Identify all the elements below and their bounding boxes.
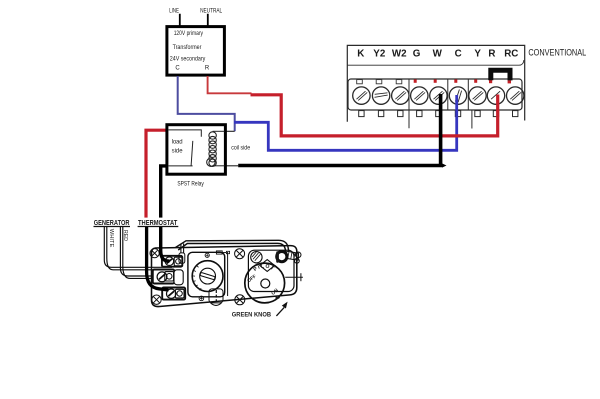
svg-text:THERMOSTAT: THERMOSTAT <box>138 220 178 227</box>
svg-text:GREEN KNOB: GREEN KNOB <box>232 312 271 319</box>
svg-text:LINE: LINE <box>169 8 179 15</box>
svg-text:W2: W2 <box>392 48 407 59</box>
svg-text:load: load <box>172 140 183 146</box>
svg-text:Y: Y <box>474 48 481 59</box>
svg-text:R: R <box>205 65 210 71</box>
svg-text:Y2: Y2 <box>373 48 386 59</box>
svg-text:CONVENTIONAL: CONVENTIONAL <box>528 47 586 58</box>
svg-text:WHITE: WHITE <box>108 229 114 248</box>
svg-text:side: side <box>172 148 184 154</box>
svg-text:RED: RED <box>122 230 128 241</box>
svg-text:G: G <box>413 48 421 59</box>
svg-text:K: K <box>357 48 364 59</box>
svg-text:RC: RC <box>504 48 518 59</box>
svg-text:NEUTRAL: NEUTRAL <box>200 8 223 15</box>
svg-text:24V secondary: 24V secondary <box>170 55 206 62</box>
svg-text:GENERATOR: GENERATOR <box>94 220 130 227</box>
svg-text:Transformer: Transformer <box>173 44 202 51</box>
svg-text:120V primary: 120V primary <box>174 30 204 37</box>
svg-text:R: R <box>488 48 495 59</box>
svg-text:coil side: coil side <box>231 145 250 151</box>
svg-text:W: W <box>433 48 443 59</box>
svg-text:C: C <box>175 65 180 71</box>
svg-text:C: C <box>455 48 462 59</box>
svg-text:SPST Relay: SPST Relay <box>177 180 204 187</box>
